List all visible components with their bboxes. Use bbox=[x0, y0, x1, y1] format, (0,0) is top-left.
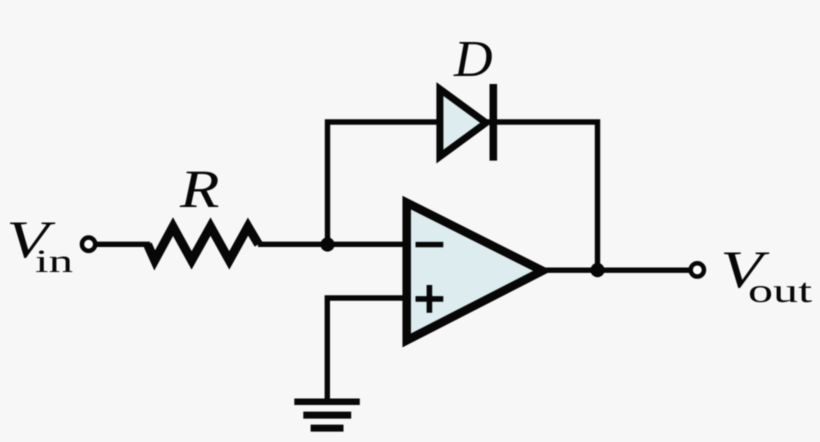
svg-text:R: R bbox=[179, 159, 220, 219]
svg-text:D: D bbox=[453, 31, 493, 88]
svg-text:out: out bbox=[748, 273, 813, 310]
svg-text:in: in bbox=[35, 244, 73, 280]
